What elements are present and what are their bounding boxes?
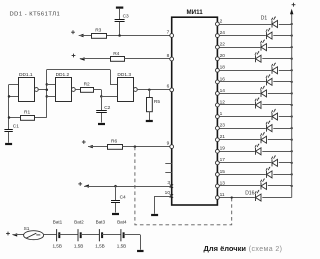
wire C1 to ground (8, 132, 10, 143)
svg-text:R4: R4 (113, 51, 119, 57)
junction node rail / D15 row (291, 185, 293, 187)
ground under C4 (112, 213, 119, 215)
pin 19 circle (216, 149, 220, 153)
switch S1 (24, 231, 44, 240)
plus input arrow of R6 line (82, 140, 93, 148)
svg-text:Bat3: Bat3 (96, 220, 106, 225)
svg-text:23: 23 (220, 123, 226, 129)
wire left rail x9 (DD1.1 inputs to C1) (8, 84, 10, 129)
pin 23 circle (216, 126, 220, 130)
svg-text:13: 13 (220, 180, 226, 186)
wire DD1.1 output to feedback rail (38, 89, 47, 91)
ground under pin 10 (151, 214, 158, 216)
pin 16 circle (216, 80, 220, 84)
wire R1 to feedback rail (35, 117, 47, 119)
ground under C1 (5, 143, 12, 145)
junction node rail / DD1.2 input 2 (46, 95, 49, 98)
pin 20 circle (216, 57, 220, 61)
svg-text:C1: C1 (13, 124, 19, 130)
wire rail to DD1.1 input 1 (9, 84, 18, 86)
pin 24 circle (216, 34, 220, 38)
svg-text:19: 19 (220, 146, 226, 152)
svg-text:R3: R3 (95, 27, 101, 33)
plus supply rail right (291, 13, 293, 198)
wire arrow to R4 (80, 58, 110, 60)
wire R3 to pin 7 (107, 35, 172, 37)
junction node rail / D1 row (291, 23, 293, 25)
LED D1 (271, 16, 279, 28)
wire top feedback drop to DD1.3 (110, 70, 112, 85)
plus input arrow of R4 line (72, 54, 85, 61)
pin 17 circle (216, 161, 220, 165)
wire node to C2 (101, 96, 103, 110)
wire arrow to R3 (79, 35, 92, 37)
wire pin 18 LED row (217, 70, 291, 72)
wire top feedback run (47, 69, 110, 71)
wire rail to R1 (9, 117, 21, 119)
resistor R4 (111, 57, 125, 62)
dashed battery feed link (135, 147, 232, 225)
junction node rail / D3 row (291, 46, 293, 48)
wire corner down to ground (154, 196, 156, 214)
wire pin 23 LED row (217, 128, 291, 130)
svg-text:R5: R5 (154, 99, 160, 105)
wire Bat3 to Bat4 (102, 234, 121, 236)
wire node to R5 (149, 90, 151, 98)
wire pin 19 LED row (217, 151, 291, 153)
plus sign top right (292, 3, 296, 7)
svg-text:2: 2 (220, 18, 223, 24)
junction node rail / DD1.1 output (46, 89, 49, 92)
pin 22 circle (216, 45, 220, 49)
svg-text:16: 16 (220, 76, 226, 82)
wire node to C4 (115, 186, 117, 200)
svg-text:6: 6 (167, 84, 170, 90)
svg-text:C2: C2 (104, 105, 110, 111)
wire pin 10 to corner (155, 196, 172, 198)
LED D7 (260, 86, 268, 98)
LED D3 (260, 39, 268, 51)
unused stub pin a (165, 163, 171, 165)
svg-text:DD1.2: DD1.2 (56, 72, 70, 78)
wire pin 13 LED row (217, 185, 291, 187)
plus terminal arrow battery line (6, 232, 17, 237)
junction node C2 / DD1.3 input 2 (100, 95, 103, 98)
svg-text:DD1 - КТ561ТЛ1: DD1 - КТ561ТЛ1 (10, 12, 61, 18)
junction node C4 / pin 3 line (114, 185, 117, 188)
wire rail to DD1.1 input 2 (9, 96, 18, 98)
svg-text:1,5В: 1,5В (95, 243, 104, 248)
plus input arrow of R3 line (71, 30, 83, 37)
LED D16 (255, 190, 262, 202)
capacitor C2 (96, 111, 107, 113)
resistor R2 (81, 88, 94, 93)
svg-text:22: 22 (220, 42, 226, 48)
wire pin 17 LED row (217, 162, 291, 164)
junction node rail / D5 row (291, 69, 293, 71)
LED D15 (260, 178, 268, 190)
junction node rail / D13 row (291, 162, 293, 164)
LED D10 (266, 120, 274, 132)
junction node dashed link / pin 9 line (134, 145, 137, 148)
svg-text:D1: D1 (261, 16, 268, 22)
logic gate DD1.1 (19, 78, 39, 102)
battery Bat2 (78, 229, 81, 241)
svg-text:R2: R2 (84, 82, 90, 88)
svg-text:МИ11: МИ11 (187, 9, 204, 16)
capacitor C4 (111, 201, 120, 203)
rail up arrow head (290, 9, 293, 15)
wire arrow to pin 3 (84, 186, 172, 188)
pin 15 circle (216, 173, 220, 177)
wire pin 12 LED row (217, 104, 291, 106)
wire Bat4 to corner (124, 234, 141, 236)
svg-text:R6: R6 (111, 138, 117, 144)
junction node C3 / R3 line (118, 34, 121, 37)
LED D9 (271, 109, 279, 121)
svg-text:R1: R1 (24, 110, 30, 116)
svg-text:C3: C3 (123, 14, 129, 20)
wire pin 16 LED row (217, 81, 291, 83)
IC U1 МИ11 body (172, 17, 218, 205)
battery Bat3 (99, 229, 102, 241)
wire corner down to battery ground (140, 235, 142, 250)
svg-text:S1: S1 (24, 226, 30, 232)
svg-text:20: 20 (220, 53, 226, 59)
svg-text:(схема 2): (схема 2) (249, 246, 283, 253)
wire pin 20 LED row (217, 58, 291, 60)
svg-text:21: 21 (220, 134, 226, 140)
svg-text:7: 7 (167, 29, 170, 35)
LED D12 (255, 143, 262, 155)
pin 21 circle (216, 138, 220, 142)
junction node rail / R1 (8, 116, 11, 119)
resistor R3 (92, 34, 107, 39)
wire corner down to DD1.3 input 2 (101, 90, 103, 97)
svg-text:1,5В: 1,5В (52, 243, 61, 248)
svg-text:10: 10 (165, 190, 171, 196)
unused stub pin b (165, 172, 171, 174)
svg-text:11: 11 (220, 192, 225, 198)
wire C4 to ground (115, 203, 117, 213)
LED D14 (266, 167, 274, 179)
supply bar above C3 (116, 6, 123, 8)
junction node dashed link / pin 11 row (231, 196, 233, 198)
wire R4 to pin 8 (124, 58, 172, 60)
junction node rail / D4 row (291, 58, 293, 60)
svg-text:C4: C4 (120, 194, 126, 200)
wire pin 15 LED row (217, 174, 291, 176)
svg-text:1: 1 (220, 111, 223, 117)
wire arrow to R6 (88, 146, 107, 148)
svg-text:12: 12 (220, 99, 226, 105)
wire bar to C3 top plate (119, 9, 121, 20)
pin 13 circle (216, 184, 220, 188)
pin 8 circle (170, 57, 174, 61)
battery Bat1 (57, 229, 60, 241)
pin 11 circle (216, 196, 220, 200)
wire R2 to corner (94, 89, 102, 91)
plus input arrow of pin 3 line (78, 182, 89, 188)
pin 7 circle (170, 34, 174, 38)
wire DD1.2 output to R2 (75, 89, 80, 91)
svg-text:Bat2: Bat2 (74, 220, 84, 225)
wire C3 bottom plate to node R3 (119, 22, 121, 36)
junction node rail / DD1.2 input 1 (46, 83, 49, 86)
LED D2 (266, 28, 274, 40)
svg-text:Bat4: Bat4 (117, 220, 127, 225)
wire pin 2 LED row (217, 24, 291, 26)
battery Bat4 (121, 229, 124, 241)
junction node rail / D14 row (291, 173, 293, 175)
svg-text:9: 9 (167, 140, 170, 146)
svg-text:1,5В: 1,5В (74, 243, 83, 248)
wire DD1.3 output to pin 6 (137, 89, 172, 91)
wire rail to DD1.2 input 1 (47, 84, 56, 86)
junction node rail / D7 row (291, 92, 293, 94)
junction node rail / D2 row (291, 34, 293, 36)
wire S1 to Bat1 (44, 234, 57, 236)
capacitor C3 (115, 20, 125, 22)
wire pin 22 LED row (217, 47, 291, 49)
wire Bat1 to Bat2 (59, 234, 78, 236)
wire into DD1.3 input 1 (110, 84, 117, 86)
wire Bat2 to Bat3 (81, 234, 100, 236)
wire C2 to ground (101, 113, 103, 123)
LED D5 (271, 62, 279, 74)
wire pin 24 LED row (217, 35, 291, 37)
junction node R5 / pin 6 line (148, 89, 151, 92)
junction node rail / D10 row (291, 127, 293, 129)
junction node rail / D12 row (291, 150, 293, 152)
svg-text:DD1.1: DD1.1 (19, 72, 33, 78)
svg-text:15: 15 (220, 169, 226, 175)
svg-text:24: 24 (220, 30, 226, 36)
pin 3 cross mark (170, 184, 173, 187)
pin 9 circle (170, 145, 174, 149)
wire pin 1 LED row (217, 116, 291, 118)
svg-text:14: 14 (220, 88, 226, 94)
capacitor C1 (4, 130, 12, 132)
junction node rail / D11 row (291, 139, 293, 141)
wire pin 14 LED row (217, 93, 291, 95)
svg-text:1,5В: 1,5В (117, 243, 126, 248)
resistor R1 (21, 116, 35, 121)
svg-text:18: 18 (220, 65, 226, 71)
wire feedback rail x47 (46, 70, 48, 118)
logic gate DD1.3 (118, 78, 138, 102)
wire R6 to pin 9 (122, 146, 171, 148)
junction node rail / D8 row (291, 104, 293, 106)
ground under C2 (98, 123, 105, 125)
wire R5 to ground (149, 112, 151, 121)
junction node rail / DD1.1 input 2 (8, 95, 11, 98)
pin 10 cross mark (170, 194, 173, 197)
resistor R6 (108, 145, 123, 150)
ground battery return (137, 250, 144, 252)
junction node rail / D6 row (291, 81, 293, 83)
LED D8 (255, 97, 262, 109)
LED D13 (271, 155, 279, 167)
resistor R5 (147, 98, 153, 112)
LED D11 (260, 132, 268, 144)
pin 1 circle (216, 115, 220, 119)
junction node rail / D9 row (291, 115, 293, 117)
wire pin 11 LED row (217, 197, 291, 199)
svg-text:17: 17 (220, 157, 226, 163)
wire arrow to switch S1 (12, 234, 23, 236)
wire rail to DD1.2 input 2 (47, 96, 56, 98)
svg-text:DD1.3: DD1.3 (117, 72, 131, 78)
wire into DD1.3 input 2 (101, 96, 117, 98)
ground under R5 (146, 120, 153, 122)
pin 2 circle (216, 22, 220, 26)
pin 12 circle (216, 103, 220, 107)
wire pin 21 LED row (217, 139, 291, 141)
pin 14 circle (216, 92, 220, 96)
pin 6 circle (170, 88, 174, 92)
LED D6 (266, 74, 274, 86)
LED D4 (255, 51, 262, 63)
svg-text:Для ёлочки: Для ёлочки (204, 244, 247, 253)
svg-text:D16: D16 (245, 191, 254, 197)
pin 18 circle (216, 68, 220, 72)
svg-text:3: 3 (167, 180, 170, 186)
svg-text:8: 8 (167, 53, 170, 59)
svg-text:Bat1: Bat1 (53, 220, 63, 225)
logic gate DD1.2 (56, 78, 76, 102)
